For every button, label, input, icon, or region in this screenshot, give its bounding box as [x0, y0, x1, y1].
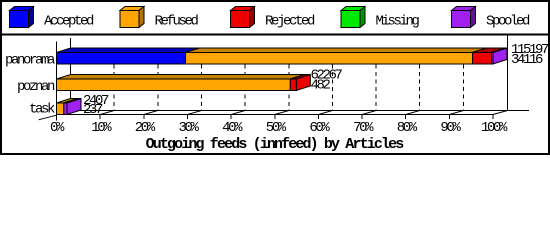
svg-text:237: 237 [83, 102, 103, 118]
y-axis front line [56, 41, 58, 114]
dashed gridline 80% [419, 48, 421, 111]
tick 40% [230, 115, 232, 120]
tick depth diagonal 80% [406, 111, 420, 115]
svg-text:34116: 34116 [511, 52, 543, 68]
svg-text:90%: 90% [440, 120, 461, 136]
legend cube Missing front face [341, 11, 360, 28]
legend cube Rejected side face [250, 7, 255, 28]
bar task : refused front face [57, 103, 64, 115]
bar poznan : rejected segment top face [290, 75, 310, 80]
tick 60% [317, 115, 319, 120]
svg-text:poznan: poznan [17, 79, 55, 95]
dashed gridline 60% [331, 48, 333, 111]
svg-text:Missing: Missing [376, 14, 420, 30]
svg-text:100%: 100% [481, 120, 508, 136]
svg-text:50%: 50% [266, 120, 287, 136]
outer border [1, 1, 549, 154]
svg-text:80%: 80% [397, 120, 418, 136]
back y-axis line (0% back plane) [70, 38, 72, 111]
svg-text:70%: 70% [353, 120, 374, 136]
bar task : refused segment top face [57, 99, 78, 104]
tick depth diagonal 50% [275, 111, 289, 115]
svg-text:Refused: Refused [155, 14, 199, 30]
tick 30% [187, 115, 189, 120]
svg-text:Outgoing feeds (innfeed) by Ar: Outgoing feeds (innfeed) by Articles [146, 136, 405, 153]
bar poznan : refused segment top face [57, 75, 305, 80]
bar panorama : spooled segment top face [492, 48, 508, 53]
bar task : spooled segment top face [64, 99, 81, 104]
legend cube Spooled front face [452, 11, 471, 28]
legend cube Missing top face [341, 7, 365, 11]
legend cube Accepted front face [10, 11, 29, 28]
tick depth diagonal 60% [318, 111, 332, 115]
legend cube Accepted top face [10, 7, 34, 11]
bar task : spooled end side face [67, 99, 81, 115]
origin front corner diagonal [39, 115, 57, 120]
svg-text:60%: 60% [309, 120, 330, 136]
svg-text:Rejected: Rejected [265, 14, 315, 30]
tick depth diagonal 20% [144, 111, 158, 115]
bar panorama : accepted front face [57, 53, 186, 65]
legend cube Spooled top face [452, 7, 476, 11]
dashed gridline 30% [201, 48, 203, 111]
dashed gridline 50% [288, 48, 290, 111]
tick 0% [56, 115, 58, 121]
bar panorama : rejected segment top face [473, 48, 506, 53]
dashed gridline 10% [113, 48, 115, 111]
legend cube Spooled side face [471, 7, 476, 28]
tick depth diagonal 10% [100, 111, 114, 115]
bar panorama : spooled end side face [493, 48, 507, 64]
bar poznan : rejected end side face [296, 75, 310, 91]
bar task : spooled front face [64, 103, 67, 115]
tick 70% [361, 115, 363, 120]
legend cube Rejected top face [231, 7, 255, 11]
svg-text:10%: 10% [91, 120, 112, 136]
tick 50% [274, 115, 276, 120]
tick depth diagonal 100% [493, 111, 508, 115]
bar panorama : refused front face [186, 53, 473, 65]
tick depth diagonal 90% [449, 111, 463, 115]
legend cube Rejected front face [231, 11, 250, 28]
tick depth diagonal 40% [231, 111, 245, 115]
tick 80% [405, 115, 407, 120]
svg-text:Accepted: Accepted [44, 14, 94, 30]
svg-text:30%: 30% [178, 120, 199, 136]
svg-text:Spooled: Spooled [486, 14, 530, 30]
svg-text:task: task [29, 102, 55, 118]
dashed gridline 40% [244, 48, 246, 111]
front x baseline [56, 114, 494, 116]
tick depth diagonal 30% [188, 111, 202, 115]
back x baseline [71, 110, 530, 112]
tick 10% [99, 115, 101, 120]
dashed gridline 90% [462, 48, 464, 111]
legend cube Accepted side face [29, 7, 34, 28]
dashed gridline 70% [375, 48, 377, 111]
tick 90% [448, 115, 450, 120]
tick depth diagonal 70% [362, 111, 376, 115]
solid 100% back gridline [507, 35, 509, 111]
svg-text:panorama: panorama [5, 52, 55, 68]
tick 20% [143, 115, 145, 120]
legend cube Refused front face [120, 11, 139, 28]
bar poznan : rejected front face [290, 79, 296, 91]
bar poznan : refused front face [57, 79, 291, 91]
legend cube Refused top face [120, 7, 144, 11]
svg-text:482: 482 [311, 78, 331, 94]
tick 100% [492, 115, 494, 120]
bar panorama : accepted segment top face [57, 48, 200, 53]
bar panorama : spooled front face [492, 53, 494, 65]
svg-text:20%: 20% [135, 120, 156, 136]
dashed gridline 20% [157, 48, 159, 111]
bar panorama : refused segment top face [186, 48, 487, 53]
svg-text:40%: 40% [222, 120, 243, 136]
legend cube Refused side face [139, 7, 144, 28]
bar panorama : rejected front face [473, 53, 492, 65]
legend separator line [0, 34, 550, 36]
legend cube Missing side face [360, 7, 365, 28]
tick depth diagonal 0% [57, 111, 71, 115]
